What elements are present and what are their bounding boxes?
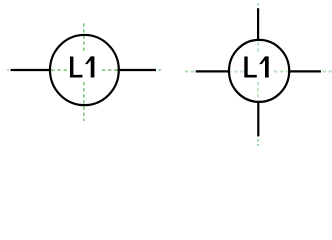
wire right terminal of L1 (right) [289, 70, 321, 72]
lamp L1 (right) horizontal axis guide, inside circle right [274, 70, 288, 72]
lamp L1 (left) vertical axis guide, bottom part [83, 82, 85, 121]
label L1 (right) glyph 1 [259, 56, 269, 77]
lamp L1 (left) vertical axis guide, top part [83, 23, 85, 51]
lamp L1 (right) vertical axis guide, topmost tick [257, 3, 259, 5]
lamp L1 (right) horizontal axis guide, far right part [323, 70, 332, 72]
wire left terminal of L1 (left) [11, 69, 51, 71]
lamp L1 (left) horizontal axis guide, right part [102, 69, 118, 71]
wire right terminal of L1 (left) [118, 69, 157, 71]
label L1 (left) glyph L [70, 57, 83, 78]
wire left terminal of L1 (right) [196, 70, 229, 72]
label L1 (right) white backing [244, 52, 274, 82]
lamp L1 (right) vertical axis guide, bottom ticks [257, 139, 259, 146]
lamp L1 (right) vertical axis guide, top part [257, 42, 259, 52]
lamp L1 (right) horizontal axis guide, far left part [185, 70, 195, 72]
lamp L1 (right) body circle [229, 40, 289, 102]
lamp L1 (right) vertical axis guide, bottom part [257, 82, 259, 134]
lamp L1 (left) horizontal axis guide, left part [51, 69, 67, 71]
lamp L1 (left) horizontal axis guide, leftmost tick [7, 69, 8, 71]
label L1 (left) glyph 1 [85, 56, 95, 77]
label L1 (right) glyph L [244, 57, 256, 78]
wire top terminal of L1 (right) [257, 8, 259, 41]
wire bottom terminal of L1 (right) [257, 101, 259, 136]
lamp L1 (left) horizontal axis guide, rightmost tick [158, 69, 160, 71]
lamp L1 (right) horizontal axis guide, inside circle left [228, 70, 244, 72]
lamp L1 (left) body circle [50, 35, 119, 105]
label L1 (left) white backing [67, 52, 100, 82]
